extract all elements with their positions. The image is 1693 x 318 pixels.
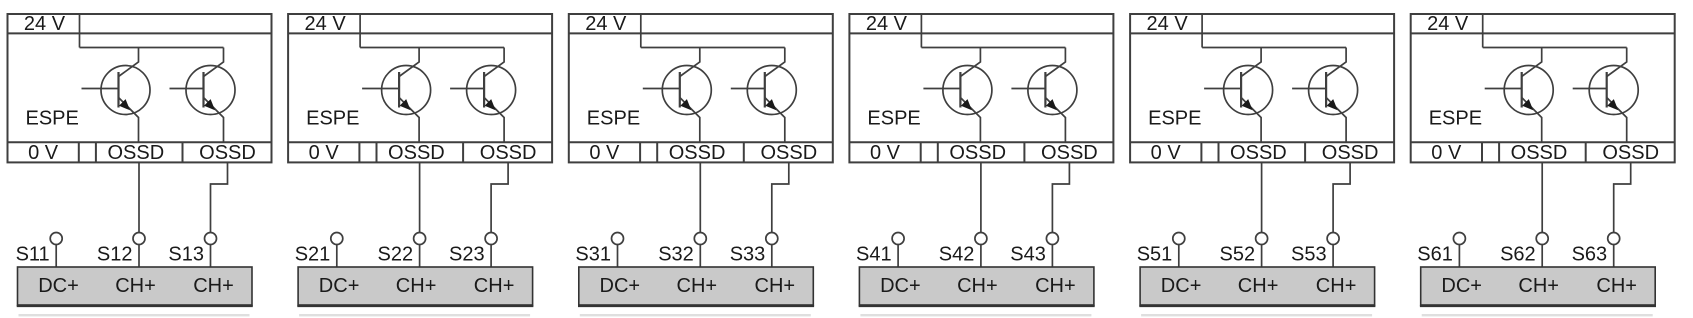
svg-text:S63: S63 xyxy=(1572,243,1608,265)
svg-text:S52: S52 xyxy=(1220,243,1256,265)
svg-text:S13: S13 xyxy=(168,243,204,265)
svg-text:S12: S12 xyxy=(97,243,133,265)
svg-text:S42: S42 xyxy=(939,243,975,265)
svg-text:S21: S21 xyxy=(295,243,331,265)
svg-text:S43: S43 xyxy=(1010,243,1046,265)
svg-text:S32: S32 xyxy=(658,243,694,265)
svg-text:S33: S33 xyxy=(730,243,766,265)
svg-text:S11: S11 xyxy=(16,243,50,265)
svg-text:S23: S23 xyxy=(449,243,485,265)
svg-text:S53: S53 xyxy=(1291,243,1327,265)
svg-text:S31: S31 xyxy=(575,243,611,265)
svg-text:S22: S22 xyxy=(378,243,414,265)
svg-text:S61: S61 xyxy=(1417,243,1453,265)
svg-text:S41: S41 xyxy=(856,243,892,265)
svg-text:S51: S51 xyxy=(1137,243,1173,265)
svg-text:S62: S62 xyxy=(1500,243,1536,265)
